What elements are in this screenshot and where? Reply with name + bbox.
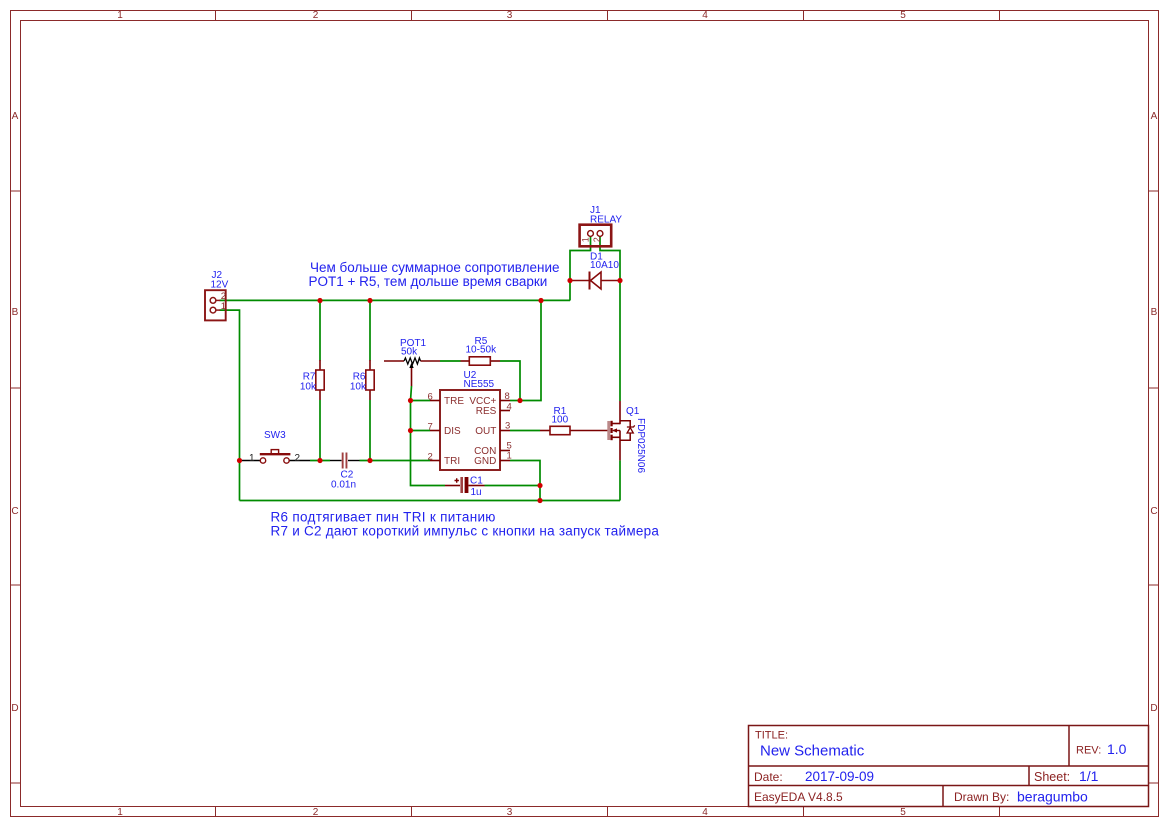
- svg-text:Sheet:: Sheet:: [1034, 770, 1070, 784]
- svg-text:6: 6: [428, 392, 433, 403]
- svg-text:2017-09-09: 2017-09-09: [805, 769, 874, 784]
- diode D1: [570, 272, 621, 290]
- svg-text:12V: 12V: [211, 279, 229, 290]
- label Q1: [626, 406, 640, 417]
- title block text REV: [1076, 741, 1127, 757]
- svg-text:Drawn By:: Drawn By:: [954, 790, 1009, 804]
- svg-text:1: 1: [221, 301, 226, 312]
- comment text top: [309, 260, 560, 289]
- svg-text:NE555: NE555: [464, 379, 495, 390]
- svg-text:2: 2: [295, 453, 301, 464]
- wire main +12V rail: [220, 299, 571, 301]
- svg-text:C: C: [1150, 506, 1157, 517]
- svg-text:Q1: Q1: [626, 406, 640, 417]
- resistor R5: [461, 357, 501, 365]
- title block: [749, 726, 1149, 807]
- svg-text:TRI: TRI: [444, 456, 460, 467]
- frame row ticks left: [11, 191, 21, 783]
- svg-text:REV:: REV:: [1076, 745, 1101, 757]
- wire OUT to R1: [510, 430, 540, 432]
- svg-text:1: 1: [507, 451, 512, 462]
- svg-text:50k: 50k: [401, 346, 418, 357]
- svg-text:C1: C1: [470, 475, 483, 486]
- label R5 10-50k: [466, 336, 498, 356]
- svg-text:7: 7: [428, 422, 433, 433]
- label C2 0.01n: [331, 469, 356, 490]
- wire TRI row: [360, 460, 431, 462]
- svg-text:C: C: [11, 506, 18, 517]
- svg-text:2: 2: [592, 237, 602, 242]
- title block text New Schematic: [760, 743, 865, 760]
- svg-text:Чем больше суммарное сопротивл: Чем больше суммарное сопротивление: [310, 260, 560, 275]
- frame column labels top: [117, 10, 906, 21]
- title block text EasyEDA version: [754, 790, 843, 804]
- label D1 10A10: [590, 252, 619, 272]
- svg-text:POT1 + R5, тем дольше время св: POT1 + R5, тем дольше время сварки: [309, 274, 548, 289]
- svg-text:FDP025N06: FDP025N06: [635, 418, 646, 473]
- frame column ticks top: [216, 11, 1000, 21]
- title block text Drawn By: [954, 789, 1088, 805]
- svg-text:5: 5: [900, 10, 906, 21]
- relay J1: [580, 225, 612, 247]
- svg-text:TRE: TRE: [444, 396, 464, 407]
- U2 pin names: [444, 396, 497, 467]
- svg-text:1: 1: [249, 453, 255, 464]
- junction dots: [237, 278, 623, 503]
- wire J2 pin1 down left rail: [220, 310, 240, 500]
- svg-text:3: 3: [507, 10, 513, 21]
- connector J2: [205, 290, 226, 320]
- frame column labels bottom: [117, 807, 906, 818]
- svg-text:10k: 10k: [300, 382, 317, 393]
- wire R6 bottom: [369, 400, 371, 461]
- svg-text:New Schematic: New Schematic: [760, 743, 865, 760]
- wire relay pin1 to rail: [570, 236, 591, 301]
- svg-text:1: 1: [580, 237, 590, 242]
- resistor R1: [540, 426, 608, 434]
- frame row ticks right: [1149, 191, 1159, 783]
- label R1 100: [552, 406, 569, 426]
- frame column ticks bottom: [216, 807, 1000, 817]
- label SW3: [264, 430, 286, 441]
- svg-text:10-50k: 10-50k: [466, 345, 498, 356]
- svg-text:10A10: 10A10: [590, 260, 619, 271]
- svg-text:beragumbo: beragumbo: [1017, 789, 1088, 805]
- svg-text:1: 1: [117, 807, 123, 818]
- label J1 RELAY: [590, 205, 622, 226]
- svg-text:D: D: [1150, 703, 1157, 714]
- wire POT1 right lead green: [440, 360, 461, 362]
- svg-text:R7 и C2 дают короткий импульс: R7 и C2 дают короткий импульс с кнопки н…: [271, 523, 660, 538]
- label U2 NE555: [464, 370, 495, 390]
- wire TRE pin: [411, 400, 431, 402]
- svg-text:GND: GND: [474, 456, 496, 467]
- svg-text:2: 2: [313, 807, 319, 818]
- svg-text:EasyEDA V4.8.5: EasyEDA V4.8.5: [754, 790, 843, 804]
- svg-text:1/1: 1/1: [1079, 768, 1099, 784]
- frame row labels right: [1150, 111, 1157, 714]
- svg-text:100: 100: [552, 415, 569, 426]
- title block text Sheet: [1034, 768, 1099, 784]
- svg-text:TITLE:: TITLE:: [755, 730, 788, 742]
- comment text bottom: [271, 510, 660, 539]
- wire bottom ground rail: [240, 500, 621, 502]
- svg-text:5: 5: [900, 807, 906, 818]
- svg-text:4: 4: [507, 402, 512, 413]
- label R7 10k: [300, 372, 317, 393]
- wire C1 right: [485, 485, 541, 487]
- U2 pin numbers: [428, 391, 512, 463]
- transistor Q1: [609, 401, 635, 460]
- svg-text:SW3: SW3: [264, 430, 286, 441]
- svg-text:8: 8: [505, 391, 510, 402]
- wire R6 top: [369, 301, 371, 361]
- capacitor C1: [445, 477, 485, 493]
- svg-text:4: 4: [702, 10, 708, 21]
- svg-text:RES: RES: [476, 406, 497, 417]
- svg-text:1u: 1u: [471, 487, 482, 498]
- svg-text:Date:: Date:: [754, 770, 783, 784]
- wire R7 top: [319, 301, 321, 361]
- svg-text:D: D: [11, 703, 18, 714]
- svg-text:3: 3: [505, 421, 510, 432]
- wire DIS pin: [411, 430, 431, 432]
- svg-text:B: B: [12, 307, 19, 318]
- wire R7 bottom: [319, 400, 321, 461]
- svg-text:OUT: OUT: [475, 426, 496, 437]
- svg-text:A: A: [12, 111, 19, 122]
- wire SW3 to C2: [310, 460, 330, 462]
- wire VCC pin8 to node: [510, 400, 520, 402]
- svg-text:RELAY: RELAY: [590, 215, 622, 226]
- svg-text:4: 4: [702, 807, 708, 818]
- title block text Date: [754, 769, 874, 784]
- label FDP025N06: [635, 418, 646, 473]
- label POT1 50k: [400, 338, 427, 357]
- svg-text:1: 1: [117, 10, 123, 21]
- frame row labels left: [11, 111, 18, 714]
- svg-text:A: A: [1151, 111, 1158, 122]
- wire relay pin2 to Q1 drain: [600, 236, 620, 401]
- svg-text:2: 2: [428, 452, 433, 463]
- wire R5 to VCC node: [500, 361, 520, 401]
- wire Q1 source down: [619, 460, 621, 500]
- resistor R6: [366, 360, 374, 400]
- svg-text:1.0: 1.0: [1107, 741, 1127, 757]
- svg-text:R6 подтягивает пин TRI к питан: R6 подтягивает пин TRI к питанию: [271, 510, 496, 525]
- title block text TITLE:: [755, 730, 788, 742]
- op IC U2 NE555: [430, 390, 510, 470]
- capacitor C2: [330, 453, 360, 469]
- svg-text:0.01n: 0.01n: [331, 480, 356, 491]
- label C1 1u: [470, 475, 483, 498]
- label J2: [211, 270, 229, 290]
- resistor R7: [316, 360, 324, 400]
- svg-text:2: 2: [313, 10, 319, 21]
- wire GND pin to rail: [510, 461, 540, 501]
- svg-text:10k: 10k: [350, 382, 367, 393]
- label R6 10k: [350, 372, 367, 393]
- switch SW3: [242, 450, 310, 464]
- potentiometer POT1: [384, 358, 440, 386]
- svg-text:3: 3: [507, 807, 513, 818]
- wire wiper down: [411, 386, 446, 486]
- svg-text:DIS: DIS: [444, 426, 461, 437]
- svg-text:B: B: [1151, 307, 1158, 318]
- wire VCC drop from rail: [520, 301, 541, 401]
